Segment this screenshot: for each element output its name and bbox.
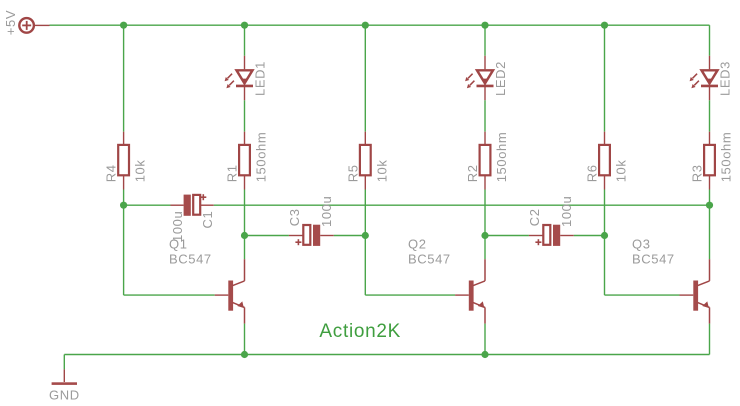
svg-text:Action2K: Action2K (319, 321, 401, 342)
svg-text:LED3: LED3 (718, 61, 733, 96)
svg-text:150ohm: 150ohm (494, 132, 509, 183)
svg-text:100u: 100u (559, 196, 574, 227)
svg-text:LED1: LED1 (253, 61, 268, 96)
svg-text:Q2: Q2 (408, 236, 427, 251)
svg-text:10k: 10k (374, 160, 389, 183)
svg-text:C1: C1 (200, 211, 215, 229)
svg-text:R2: R2 (465, 164, 480, 182)
svg-text:+5V: +5V (3, 10, 18, 35)
svg-text:100u: 100u (170, 211, 185, 242)
svg-text:R5: R5 (345, 164, 360, 182)
svg-text:100u: 100u (319, 196, 334, 227)
svg-text:R3: R3 (690, 164, 705, 182)
svg-text:C3: C3 (287, 208, 302, 226)
svg-text:BC547: BC547 (632, 252, 675, 267)
svg-text:BC547: BC547 (408, 252, 451, 267)
svg-text:10k: 10k (614, 160, 629, 183)
svg-text:C2: C2 (527, 208, 542, 226)
svg-text:Q3: Q3 (632, 236, 651, 251)
svg-text:R4: R4 (104, 164, 119, 182)
svg-text:R1: R1 (225, 164, 240, 182)
svg-text:R6: R6 (585, 164, 600, 182)
svg-text:LED2: LED2 (493, 61, 508, 96)
svg-text:150ohm: 150ohm (719, 132, 734, 183)
svg-text:10k: 10k (133, 160, 148, 183)
svg-text:BC547: BC547 (169, 252, 212, 267)
svg-text:GND: GND (49, 387, 80, 402)
svg-text:150ohm: 150ohm (254, 132, 269, 183)
